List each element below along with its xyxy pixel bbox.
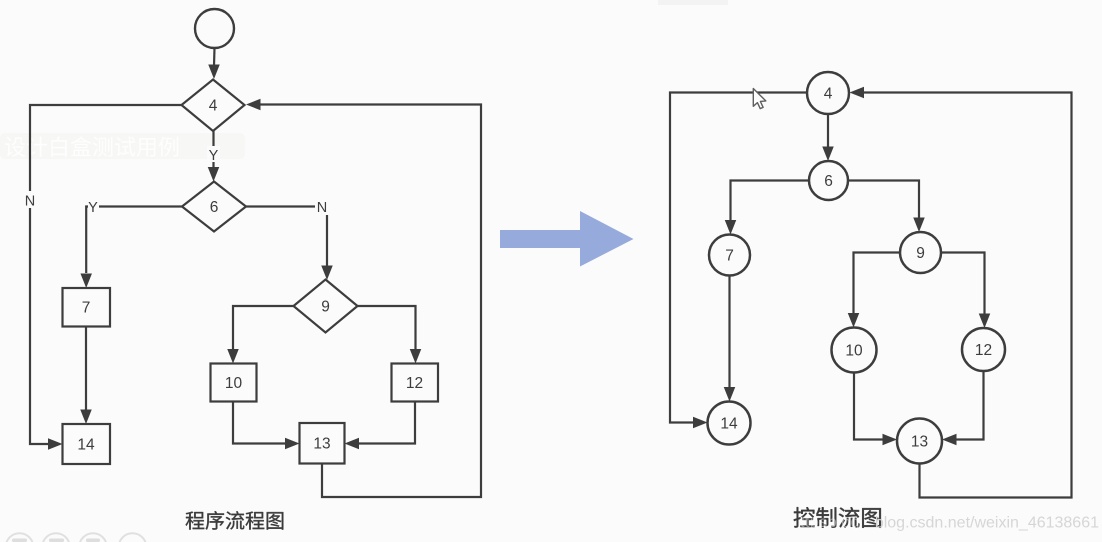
box 14 (63, 424, 111, 464)
wire box 10 to box 13 (233, 402, 300, 450)
svg-text:12: 12 (406, 375, 423, 392)
node 12 (CFG) (962, 328, 1005, 371)
bottom-left partial button circles (6, 533, 147, 542)
svg-text:9: 9 (321, 299, 330, 316)
start circle (left flowchart) (195, 9, 234, 48)
svg-text:N: N (317, 200, 327, 216)
svg-text:13: 13 (313, 436, 330, 453)
svg-text:Y: Y (88, 200, 98, 216)
wire node 10 to node 13 (854, 373, 897, 446)
wire node 7 to node 14 (724, 276, 736, 402)
diamond 4 (182, 80, 245, 132)
svg-text:9: 9 (916, 245, 925, 262)
caption 程序流程图 (186, 511, 284, 530)
wire diamond 4 N-branch to box 14 (23, 105, 182, 450)
wire box 12 to box 13 (345, 402, 416, 450)
svg-text:4: 4 (209, 98, 218, 115)
wire diamond 6 Y-branch to box 7 (80, 198, 182, 288)
faint watermark band (设计白盒测试用例) (0, 133, 245, 159)
wire start to diamond 4 (208, 48, 220, 79)
wire node 13 loop back to node 4 (850, 87, 1072, 498)
svg-text:10: 10 (225, 375, 243, 392)
node 10 (CFG) (832, 328, 877, 373)
top edge smudge (658, 0, 728, 5)
wire node 4 to node 14 (left loop) (670, 93, 807, 429)
wire diamond 9 to box 10 (227, 306, 293, 364)
wire node 4 to node 6 (822, 114, 834, 161)
caption 控制流图 (794, 507, 881, 528)
box 12 (392, 364, 439, 402)
wire box 7 to box 14 (80, 327, 92, 425)
node 6 (CFG) (809, 161, 848, 200)
svg-text:Y: Y (209, 148, 219, 164)
wire node 6 to node 7 (725, 181, 809, 235)
wire box 13 loop back to diamond 4 (246, 99, 481, 497)
svg-text:12: 12 (975, 342, 992, 359)
wire node 9 to node 12 (941, 253, 990, 329)
box 7 (63, 288, 111, 327)
svg-text:4: 4 (824, 86, 833, 103)
node 14 (CFG) (708, 402, 751, 445)
diamond 9 (294, 280, 358, 333)
wire node 9 to node 10 (848, 253, 900, 328)
svg-text:13: 13 (911, 434, 928, 451)
svg-text:7: 7 (725, 248, 734, 265)
wire diamond 4 to diamond 6 (Y) (207, 131, 220, 182)
svg-text:14: 14 (720, 416, 738, 433)
wire diamond 9 to box 12 (358, 306, 422, 364)
node 4 (CFG) (807, 72, 849, 114)
mouse cursor (753, 89, 766, 109)
svg-text:N: N (25, 194, 35, 210)
box 10 (211, 364, 257, 402)
node 13 (CFG) (897, 419, 942, 464)
svg-text:6: 6 (824, 173, 833, 190)
diamond 6 (182, 182, 246, 232)
svg-text:blog.csdn.net/weixin_46138661: blog.csdn.net/weixin_46138661 (875, 515, 1099, 532)
svg-text:6: 6 (210, 199, 219, 216)
blue transform arrow (500, 211, 634, 267)
node 9 (CFG) (900, 232, 941, 273)
svg-text:7: 7 (82, 300, 91, 317)
svg-text:14: 14 (77, 437, 95, 454)
wire node 12 to node 13 (942, 371, 984, 445)
wire diamond 6 N-branch to diamond 9 (246, 198, 333, 280)
node 7 (CFG) (709, 235, 750, 276)
box 13 (300, 423, 345, 464)
svg-text:10: 10 (845, 343, 863, 360)
svg-text:ttpsblog: ttpsblog (800, 514, 860, 531)
wire node 6 to node 9 (848, 181, 925, 233)
